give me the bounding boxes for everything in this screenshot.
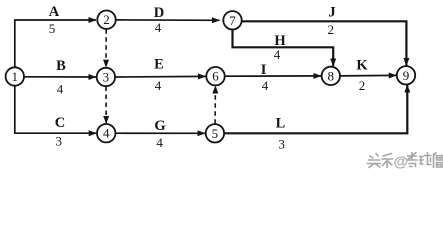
glyph 僧 xyxy=(434,153,443,168)
glyph 试 xyxy=(420,153,432,165)
wire activity H (7→8) xyxy=(233,30,334,66)
svg-text:9: 9 xyxy=(403,68,410,83)
svg-text:4: 4 xyxy=(155,78,162,93)
wire activity I (6→8) xyxy=(225,75,321,77)
node 5 xyxy=(206,124,224,142)
svg-text:L: L xyxy=(276,116,286,132)
wire activity G (4→5) xyxy=(116,132,206,134)
svg-text:5: 5 xyxy=(49,21,56,36)
wire activity A (1→2) xyxy=(15,20,96,67)
wire dummy arrow (5→6) dashed xyxy=(214,86,216,124)
svg-text:2: 2 xyxy=(328,22,335,37)
svg-text:1: 1 xyxy=(12,69,19,84)
svg-text:6: 6 xyxy=(212,69,219,84)
watermark 头条@考试僧 (drawn strokes, gray) xyxy=(368,153,443,171)
svg-text:@: @ xyxy=(394,154,409,171)
svg-text:K: K xyxy=(356,57,368,73)
node 7 xyxy=(223,11,241,29)
node 4 xyxy=(97,124,115,142)
wire activity B (1→3) xyxy=(24,76,96,78)
wire activity K (8→9) xyxy=(340,74,396,77)
svg-text:E: E xyxy=(154,57,164,73)
svg-text:7: 7 xyxy=(229,13,236,28)
wire dummy arrow (2→3) dashed xyxy=(105,29,107,67)
svg-text:3: 3 xyxy=(55,133,62,148)
wire activity C (1→4) xyxy=(15,86,96,133)
node 1 xyxy=(6,67,24,85)
glyph 头 xyxy=(368,154,381,168)
svg-text:J: J xyxy=(328,5,335,21)
node 3 xyxy=(97,68,115,86)
glyph 考 xyxy=(407,153,417,167)
node 8 xyxy=(322,67,340,85)
svg-text:5: 5 xyxy=(212,126,219,141)
wire activity J (7→9) xyxy=(242,21,407,65)
svg-text:3: 3 xyxy=(278,136,285,151)
svg-text:D: D xyxy=(154,5,164,21)
wire activity D (2→7) xyxy=(116,19,220,21)
node 6 xyxy=(206,67,224,85)
svg-text:4: 4 xyxy=(262,78,269,93)
svg-text:4: 4 xyxy=(103,126,110,141)
glyph 条 xyxy=(382,154,393,168)
svg-text:2: 2 xyxy=(359,78,366,93)
svg-text:I: I xyxy=(261,62,267,78)
svg-text:2: 2 xyxy=(103,12,110,27)
wire dummy arrow (3→4) dashed xyxy=(105,87,107,124)
svg-text:4: 4 xyxy=(274,47,281,62)
svg-text:C: C xyxy=(55,115,65,131)
svg-text:4: 4 xyxy=(57,81,64,96)
svg-text:3: 3 xyxy=(103,70,110,85)
svg-text:4: 4 xyxy=(156,135,163,150)
svg-text:A: A xyxy=(49,4,60,20)
svg-text:4: 4 xyxy=(155,20,162,35)
node 9 xyxy=(397,66,415,84)
wire activity L (5→9) xyxy=(224,85,407,133)
node 2 xyxy=(97,11,115,29)
svg-text:8: 8 xyxy=(328,68,335,83)
wire activity E (3→6) xyxy=(115,75,205,78)
svg-text:B: B xyxy=(56,58,66,74)
svg-text:G: G xyxy=(154,118,165,134)
